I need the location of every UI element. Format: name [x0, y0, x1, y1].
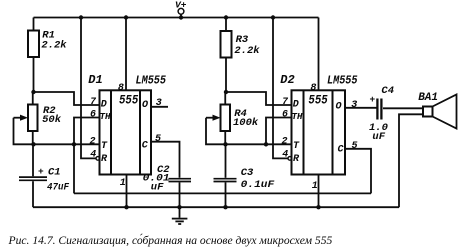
wire D1 pin 5 to C2 [151, 142, 180, 178]
node junction R3/R4 [224, 90, 228, 94]
junction on bus at D1 pin 8 [124, 15, 128, 19]
svg-text:R3: R3 [236, 34, 249, 46]
svg-text:R: R [101, 154, 108, 165]
svg-text:Рис. 14.7. Сигнализация, со́бр: Рис. 14.7. Сигнализация, со́бранная на о… [8, 233, 333, 247]
wire D2 pin 5 to rail A [345, 149, 371, 194]
svg-text:D: D [101, 99, 107, 110]
wire trigger line to D1 pin 2 [34, 143, 100, 145]
ground symbol [172, 207, 188, 224]
junction on bus at V+ [179, 15, 183, 19]
svg-text:TH: TH [292, 112, 303, 122]
wire D2 pin 6 threshold tie [266, 118, 292, 145]
svg-text:D2: D2 [280, 73, 294, 87]
svg-text:47uF: 47uF [47, 181, 70, 193]
svg-text:TH: TH [100, 112, 111, 122]
junction on bus at D1 reset feed [79, 15, 83, 19]
wire V+ to D2 pin 4 reset [273, 18, 288, 159]
wire D2 pin 8 [318, 18, 320, 91]
svg-text:C: C [338, 145, 344, 156]
svg-text:O: O [142, 100, 148, 111]
inversion bubble D1 pin 4 [96, 157, 100, 161]
inversion bubble D2 pin 4 [288, 157, 292, 161]
svg-text:5: 5 [155, 134, 161, 145]
svg-text:555: 555 [308, 93, 327, 108]
svg-text:uF: uF [151, 181, 164, 193]
svg-text:D: D [293, 99, 299, 110]
svg-text:C: C [142, 140, 148, 151]
junction D2 trigger/threshold tie [264, 142, 268, 146]
wire D1 pin 6 threshold tie [74, 118, 100, 145]
capacitor C4 coupling [377, 99, 381, 120]
wire R1 junction to D1 pin 7 [34, 92, 100, 105]
svg-text:3: 3 [351, 100, 357, 111]
capacitor C3 [214, 144, 237, 207]
svg-text:BA1: BA1 [418, 92, 438, 104]
svg-text:4: 4 [282, 149, 288, 160]
svg-text:O: O [336, 101, 342, 112]
svg-text:C4: C4 [381, 85, 394, 97]
wire threshold node down to rail A [73, 144, 75, 193]
svg-text:100k: 100k [233, 117, 259, 129]
svg-text:+: + [38, 166, 44, 177]
svg-text:50k: 50k [42, 114, 62, 126]
svg-text:T: T [101, 141, 108, 152]
svg-text:2: 2 [282, 136, 288, 147]
IC D1 LM555 box [100, 90, 152, 174]
svg-text:8: 8 [310, 83, 316, 94]
speaker BA1 [423, 95, 457, 129]
svg-text:1: 1 [120, 178, 126, 189]
wire D2 output to C4 [345, 107, 377, 109]
junction rail B at D2 pin1 [316, 205, 320, 209]
svg-text:D1: D1 [88, 73, 102, 87]
V+ bus wire [34, 17, 319, 19]
svg-text:C3: C3 [241, 167, 254, 179]
svg-text:R: R [293, 154, 300, 165]
V+ terminal [178, 8, 184, 17]
junction rail B at C3 [223, 205, 227, 209]
svg-text:LM555: LM555 [136, 75, 167, 88]
wire trigger line to D2 pin 2 [226, 143, 292, 145]
wire speaker return to rail B [399, 114, 423, 207]
capacitor C1 electrolytic [19, 144, 47, 207]
wire V+ to D1 pin 4 reset [81, 18, 96, 159]
svg-text:7: 7 [90, 97, 97, 108]
svg-text:6: 6 [282, 110, 288, 121]
svg-text:5: 5 [352, 141, 358, 152]
svg-text:uF: uF [372, 131, 385, 143]
junction rail B at C2/ground [177, 205, 181, 209]
svg-text:2.2k: 2.2k [41, 39, 67, 51]
svg-text:2: 2 [90, 136, 96, 147]
node junction R4/C3/trigger [223, 142, 227, 146]
svg-text:+: + [370, 94, 376, 105]
svg-text:555: 555 [119, 93, 138, 108]
svg-text:V+: V+ [175, 0, 187, 10]
svg-text:T: T [293, 141, 300, 152]
resistor R3 [221, 18, 232, 93]
svg-text:4: 4 [90, 149, 96, 160]
svg-text:6: 6 [90, 110, 96, 121]
wire R3 junction to D2 pin 7 [226, 92, 292, 105]
svg-text:1: 1 [312, 181, 318, 192]
svg-text:7: 7 [282, 97, 289, 108]
junction rail B at D1 pin1 [124, 205, 128, 209]
svg-text:2.2k: 2.2k [234, 45, 260, 57]
junction on bus at R3 [224, 15, 228, 19]
node junction R1/R2 [31, 90, 35, 94]
wire D1 pin 8 [125, 18, 127, 91]
resistor R1 [28, 18, 39, 93]
svg-text:0.1uF: 0.1uF [241, 179, 275, 191]
wire D1 output stub pin 3 [151, 106, 168, 108]
R4 wiper arrow [206, 115, 226, 145]
node junction R2/C1/trigger [31, 142, 35, 146]
wire D2 pin 1 ground [318, 175, 320, 208]
rail B ground return wire [33, 206, 399, 208]
capacitor C2 [169, 179, 192, 208]
IC D2 LM555 box [292, 90, 346, 174]
wire D1 pin 1 ground [126, 175, 128, 208]
svg-text:LM555: LM555 [327, 75, 358, 88]
R2 wiper arrow [14, 115, 34, 145]
wire C4 to speaker [383, 107, 423, 109]
junction trigger/threshold tie [72, 142, 76, 146]
potentiometer R4 [221, 92, 231, 144]
svg-text:C1: C1 [48, 167, 61, 179]
rail A control-voltage link wire [74, 192, 371, 194]
potentiometer R2 [28, 92, 38, 144]
junction on bus at D2 reset feed [271, 15, 275, 19]
svg-text:8: 8 [118, 83, 124, 94]
